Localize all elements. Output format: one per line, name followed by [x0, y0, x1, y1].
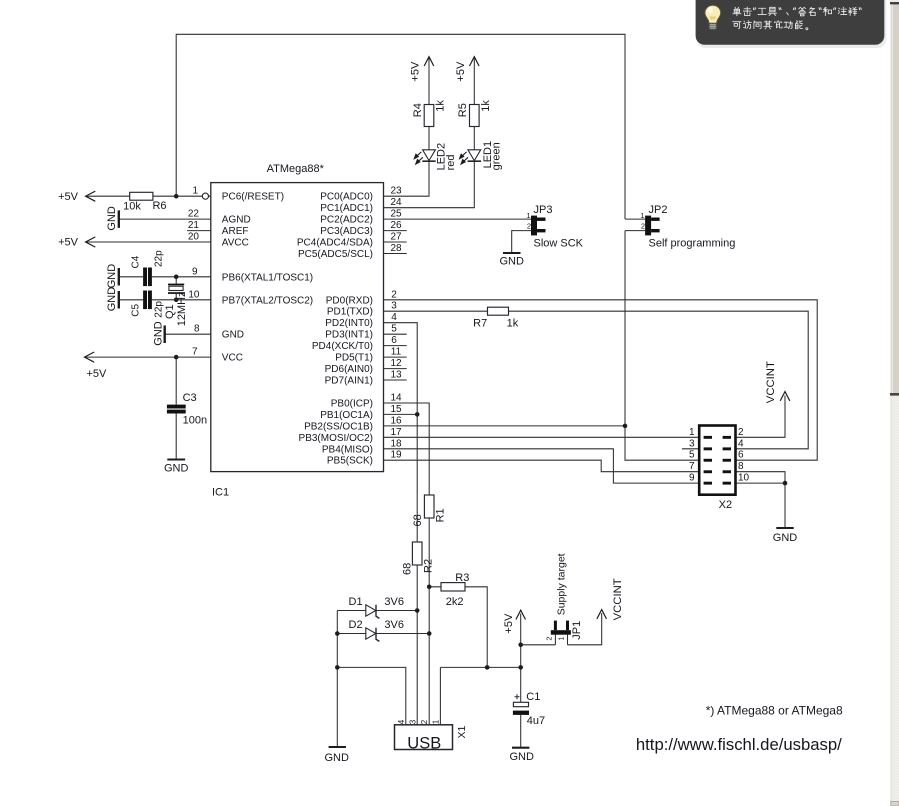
svg-text:5: 5 — [689, 450, 695, 461]
svg-text:20: 20 — [188, 232, 200, 243]
svg-text:GND: GND — [222, 330, 244, 341]
svg-text:23: 23 — [390, 186, 402, 197]
svg-text:PC0(ADC0): PC0(ADC0) — [320, 192, 373, 203]
svg-text:GND: GND — [164, 462, 189, 474]
svg-text:22p: 22p — [153, 301, 164, 318]
svg-text:PD7(AIN1): PD7(AIN1) — [325, 376, 373, 387]
svg-text:*) ATMega88 or ATMega8: *) ATMega88 or ATMega8 — [706, 704, 843, 718]
svg-text:1: 1 — [689, 427, 695, 438]
svg-text:24: 24 — [390, 197, 402, 208]
svg-text:PC6(/RESET): PC6(/RESET) — [222, 192, 284, 203]
svg-text:11: 11 — [391, 347, 402, 358]
svg-text:+5V: +5V — [410, 61, 422, 82]
svg-text:8: 8 — [738, 461, 744, 472]
svg-text:Supply target: Supply target — [556, 553, 568, 615]
svg-text:Slow SCK: Slow SCK — [534, 237, 584, 249]
svg-text:19: 19 — [390, 450, 402, 461]
svg-text:PB3(MOSI/OC2): PB3(MOSI/OC2) — [299, 433, 373, 444]
svg-text:IC1: IC1 — [212, 487, 229, 499]
svg-text:PD6(AIN0): PD6(AIN0) — [325, 364, 373, 375]
svg-text:red: red — [445, 154, 457, 170]
svg-text:PB5(SCK): PB5(SCK) — [327, 456, 373, 467]
svg-text:USB: USB — [407, 735, 441, 753]
svg-text:PB4(MISO): PB4(MISO) — [322, 444, 373, 455]
svg-text:R3: R3 — [455, 572, 469, 584]
svg-text:68: 68 — [401, 563, 413, 575]
svg-text:C1: C1 — [526, 691, 540, 703]
svg-text:GND: GND — [773, 532, 798, 544]
svg-text:18: 18 — [390, 438, 402, 449]
svg-text:PD4(XCK/T0): PD4(XCK/T0) — [312, 341, 373, 352]
svg-text:PC1(ADC1): PC1(ADC1) — [320, 203, 373, 214]
svg-text:Q1: Q1 — [164, 304, 176, 319]
svg-text:PB2(SS/OC1B): PB2(SS/OC1B) — [304, 421, 373, 432]
svg-text:PC3(ADC3): PC3(ADC3) — [320, 226, 373, 237]
svg-text:+5V: +5V — [87, 368, 108, 380]
svg-text:2: 2 — [527, 222, 531, 231]
svg-text:VCCINT: VCCINT — [612, 578, 624, 620]
svg-text:C3: C3 — [183, 392, 197, 404]
svg-text:22p: 22p — [153, 250, 164, 267]
svg-text:9: 9 — [192, 266, 198, 277]
svg-text:PD2(INT0): PD2(INT0) — [325, 318, 373, 329]
svg-text:Self programming: Self programming — [649, 237, 736, 249]
svg-text:10k: 10k — [123, 200, 141, 212]
svg-text:10: 10 — [188, 289, 200, 300]
svg-text:PC2(ADC2): PC2(ADC2) — [320, 215, 373, 226]
svg-text:7: 7 — [192, 347, 198, 358]
svg-text:1: 1 — [640, 211, 644, 220]
svg-text:GND: GND — [499, 256, 524, 268]
svg-text:R2: R2 — [423, 559, 435, 573]
svg-text:6: 6 — [738, 450, 744, 461]
svg-text:PD5(T1): PD5(T1) — [335, 353, 373, 364]
svg-text:1k: 1k — [507, 318, 519, 330]
svg-text:VCCINT: VCCINT — [765, 361, 777, 403]
svg-text:GND: GND — [106, 287, 118, 312]
svg-text:25: 25 — [390, 209, 402, 220]
svg-text:15: 15 — [390, 404, 402, 415]
svg-text:AVCC: AVCC — [222, 238, 249, 249]
svg-text:3: 3 — [408, 719, 417, 724]
svg-text:GND: GND — [106, 264, 118, 289]
svg-text:PD1(TXD): PD1(TXD) — [327, 307, 373, 318]
svg-text:GND: GND — [324, 752, 349, 764]
svg-text:8: 8 — [194, 324, 200, 335]
svg-text:PB6(XTAL1/TOSC1): PB6(XTAL1/TOSC1) — [222, 272, 313, 283]
svg-text:ATMega88*: ATMega88* — [267, 163, 325, 175]
svg-text:1k: 1k — [435, 100, 447, 112]
svg-text:C4: C4 — [131, 255, 142, 268]
svg-text:14: 14 — [390, 393, 402, 404]
svg-text:GND: GND — [153, 321, 165, 346]
svg-text:1: 1 — [526, 211, 530, 220]
svg-text:GND: GND — [106, 206, 118, 231]
svg-text:R6: R6 — [152, 200, 166, 212]
svg-text:D2: D2 — [349, 619, 363, 631]
svg-text:68: 68 — [412, 514, 424, 526]
svg-text:7: 7 — [689, 461, 695, 472]
svg-text:6: 6 — [391, 335, 397, 346]
svg-text:1: 1 — [431, 719, 440, 724]
svg-text:+5V: +5V — [58, 191, 79, 203]
svg-text:12MHz: 12MHz — [176, 291, 188, 326]
svg-text:3V6: 3V6 — [384, 619, 404, 631]
svg-text:100n: 100n — [183, 415, 207, 427]
svg-text:R5: R5 — [457, 103, 469, 117]
svg-text:17: 17 — [390, 427, 402, 438]
svg-text:AGND: AGND — [222, 215, 251, 226]
svg-text:22: 22 — [188, 209, 200, 220]
svg-text:VCC: VCC — [222, 353, 243, 364]
svg-text:10: 10 — [738, 473, 750, 484]
svg-text:9: 9 — [689, 473, 695, 484]
svg-text:4u7: 4u7 — [527, 715, 545, 727]
svg-text:JP3: JP3 — [534, 204, 553, 216]
svg-text:28: 28 — [390, 243, 402, 254]
svg-text:3V6: 3V6 — [384, 596, 404, 608]
svg-text:16: 16 — [390, 415, 402, 426]
svg-text:R1: R1 — [435, 508, 447, 522]
svg-text:PB1(OC1A): PB1(OC1A) — [320, 410, 373, 421]
svg-text:JP2: JP2 — [649, 204, 668, 216]
svg-text:AREF: AREF — [222, 226, 249, 237]
svg-text:+5V: +5V — [455, 61, 467, 82]
svg-text:PC5(ADC5/SCL): PC5(ADC5/SCL) — [298, 249, 373, 260]
svg-text:3: 3 — [391, 301, 397, 312]
svg-text:2k2: 2k2 — [446, 596, 464, 608]
svg-text:2: 2 — [641, 222, 645, 231]
svg-text:27: 27 — [390, 232, 402, 243]
svg-text:13: 13 — [390, 370, 402, 381]
svg-text:PB7(XTAL2/TOSC2): PB7(XTAL2/TOSC2) — [222, 295, 313, 306]
svg-text:D1: D1 — [349, 596, 363, 608]
svg-text:21: 21 — [188, 220, 200, 231]
svg-text:2: 2 — [738, 427, 744, 438]
svg-text:R4: R4 — [412, 103, 424, 117]
svg-text:GND: GND — [509, 751, 534, 763]
svg-text:C5: C5 — [131, 303, 142, 316]
svg-text:3: 3 — [689, 438, 695, 449]
svg-text:+5V: +5V — [503, 613, 515, 634]
svg-text:4: 4 — [738, 438, 744, 449]
svg-text:PC4(ADC4/SDA): PC4(ADC4/SDA) — [297, 238, 373, 249]
svg-text:R7: R7 — [473, 318, 487, 330]
svg-text:http://www.fischl.de/usbasp/: http://www.fischl.de/usbasp/ — [636, 735, 842, 754]
svg-text:+5V: +5V — [58, 237, 79, 249]
svg-text:1k: 1k — [480, 100, 492, 112]
svg-text:1: 1 — [556, 636, 565, 640]
svg-text:2: 2 — [420, 719, 429, 724]
svg-text:PB0(ICP): PB0(ICP) — [331, 399, 373, 410]
svg-text:1: 1 — [192, 186, 198, 197]
svg-text:PD0(RXD): PD0(RXD) — [326, 295, 373, 306]
svg-text:12: 12 — [390, 358, 402, 369]
svg-text:X2: X2 — [719, 499, 732, 511]
svg-text:2: 2 — [544, 636, 553, 640]
svg-text:26: 26 — [390, 220, 402, 231]
svg-text:4: 4 — [397, 719, 406, 724]
svg-text:4: 4 — [391, 312, 397, 323]
svg-text:2: 2 — [391, 289, 397, 300]
svg-text:5: 5 — [391, 324, 397, 335]
svg-text:green: green — [491, 142, 503, 170]
svg-text:X1: X1 — [456, 725, 468, 738]
svg-text:JP1: JP1 — [571, 621, 583, 640]
svg-text:PD3(INT1): PD3(INT1) — [325, 330, 373, 341]
